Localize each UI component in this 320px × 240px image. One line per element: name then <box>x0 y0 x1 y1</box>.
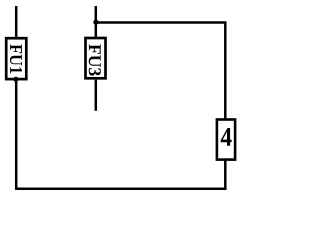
wire: left branch bottom (FU1 to bottom bus) <box>15 80 18 190</box>
label FU3 <box>89 44 101 75</box>
label 4 <box>221 128 232 146</box>
wire: top bus (junction to right corner) <box>96 21 227 24</box>
wire: right branch upper (box 4 to top bus) <box>224 23 227 119</box>
fuse FU1 <box>6 38 26 79</box>
wire: bottom bus <box>15 187 227 190</box>
component box 4 <box>217 120 235 160</box>
fuse FU3 <box>86 38 106 78</box>
wire: right branch lower (bottom bus to box 4) <box>224 160 227 189</box>
junction dot at top bus / middle branch <box>93 20 98 25</box>
junction dot at FU1 bottom <box>13 77 18 82</box>
wire: middle branch top stub <box>95 6 98 37</box>
wire: middle branch lower open end <box>95 80 98 111</box>
wire: left branch top stub <box>15 6 18 38</box>
label FU1 <box>10 44 22 73</box>
